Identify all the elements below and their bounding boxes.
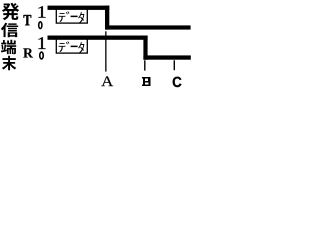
dakuten (T data label): [66, 11, 70, 14]
long vowel bar (T data label): [71, 16, 78, 18]
wire: R falling edge at B: [143, 36, 147, 60]
time marker line A: [105, 31, 106, 71]
wire: T space (low) level segment: [105, 25, 191, 29]
wire: T mark (high) level segment: [48, 6, 110, 10]
label 0 (R low level): [40, 52, 44, 59]
data box on T line: [56, 9, 87, 24]
label C (time marker): [173, 77, 182, 87]
katakana ta (R data label): [78, 42, 84, 54]
katakana te (T data label): [59, 13, 66, 22]
time marker line B: [144, 60, 145, 70]
long vowel bar (R data label): [71, 46, 78, 48]
wire: R space (low) level segment: [143, 55, 190, 59]
kanji 発 (hatsu): [2, 3, 19, 20]
label 0 (T low level): [39, 22, 42, 29]
kanji 末 (matsu): [2, 56, 16, 70]
kanji 端 (tan): [1, 40, 16, 54]
dakuten (R data label): [66, 41, 70, 44]
label B (time marker): [142, 77, 150, 86]
katakana te (R data label): [59, 43, 66, 52]
data box on R line: [56, 39, 87, 54]
kanji 信 (shin): [1, 23, 18, 37]
label 1 (T high level): [38, 6, 45, 17]
label T (send line): [24, 15, 32, 25]
label A (time marker): [101, 76, 113, 86]
wire: T falling edge at A: [105, 6, 109, 30]
label 1 (R high level): [38, 37, 45, 49]
time marker line C: [174, 60, 175, 70]
label R (receive line): [23, 48, 33, 57]
katakana ta (T data label): [78, 12, 84, 24]
wire: R mark (high) level segment: [48, 36, 148, 40]
